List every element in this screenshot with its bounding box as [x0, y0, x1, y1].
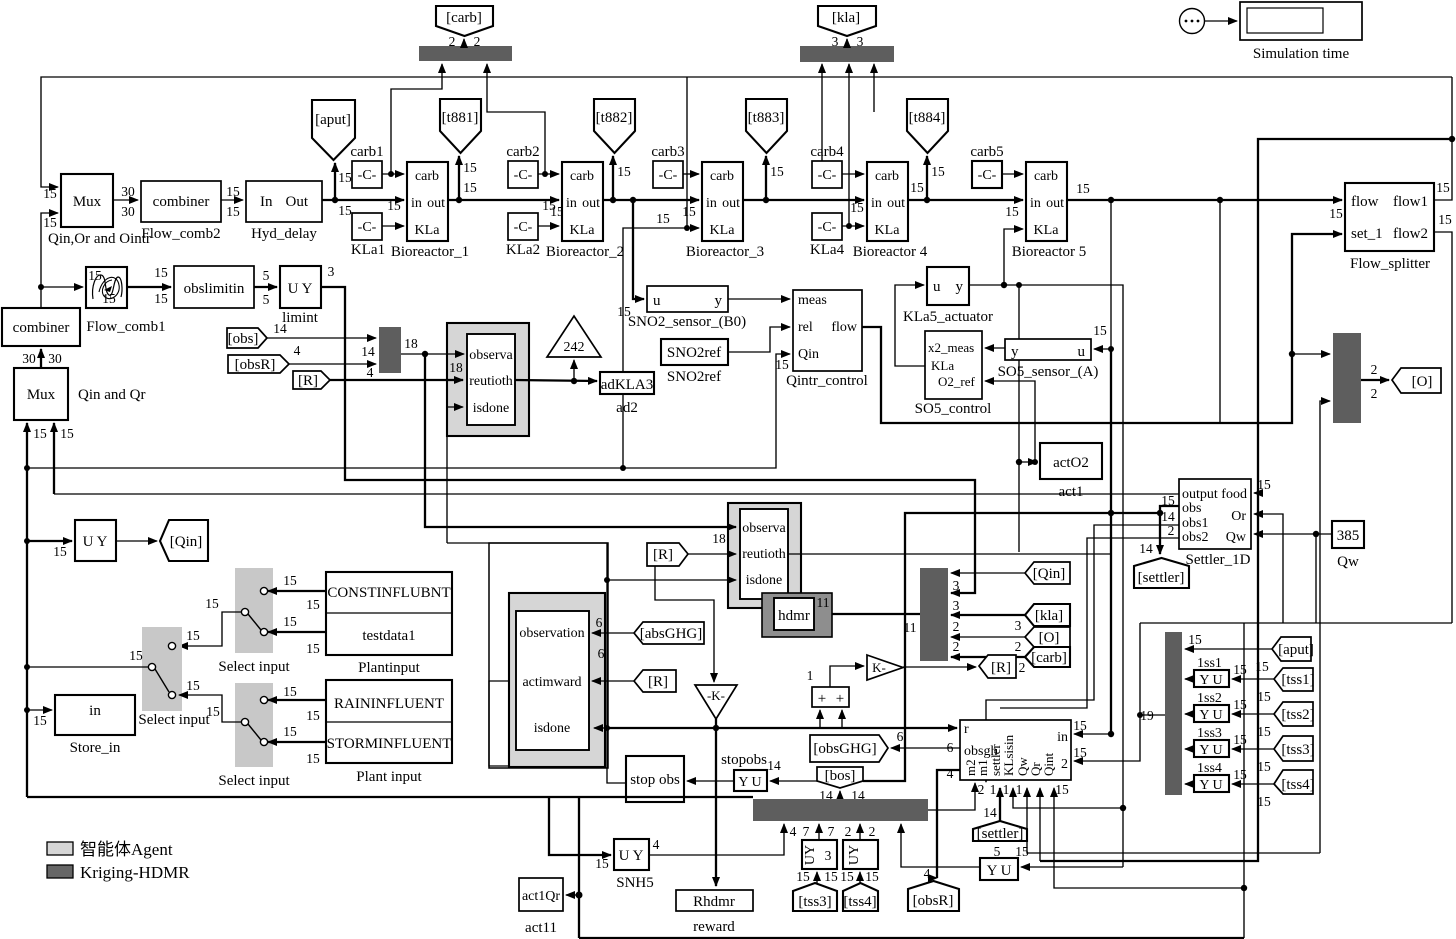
- svg-text:15: 15: [1436, 180, 1450, 195]
- goto tag [Qin] left: [160, 520, 208, 561]
- svg-text:15: 15: [1255, 659, 1269, 674]
- wire Mux to combiner 30: [113, 184, 138, 219]
- block Bioreactor_3: [686, 162, 764, 260]
- block limint U Y: [280, 264, 335, 326]
- svg-text:15: 15: [1073, 718, 1087, 733]
- wire YU right chain: [901, 824, 1123, 867]
- svg-text:u: u: [1078, 344, 1086, 360]
- wire Mux2 to combiner 30: [22, 349, 62, 368]
- svg-text:carb: carb: [415, 169, 439, 184]
- svg-text:Flow_splitter: Flow_splitter: [1350, 256, 1430, 272]
- svg-text:14: 14: [273, 321, 287, 336]
- svg-text:observation: observation: [519, 626, 584, 641]
- constant carb2: [506, 144, 539, 188]
- svg-text:6: 6: [596, 615, 603, 630]
- svg-text:3: 3: [857, 34, 864, 49]
- wire kla to bar2: [951, 614, 1025, 616]
- wire obslimitin to limint: [254, 268, 277, 307]
- svg-text:[carb]: [carb]: [1031, 650, 1067, 666]
- goto tag [carb] top: [436, 6, 493, 36]
- svg-text:[R]: [R]: [298, 373, 318, 389]
- svg-text:obs2: obs2: [1182, 530, 1208, 545]
- wire r 2 feed: [1074, 623, 1165, 761]
- svg-text:6: 6: [897, 729, 904, 744]
- svg-text:[t881]: [t881]: [442, 110, 479, 126]
- mux bar4 tss: [1165, 632, 1182, 795]
- svg-text:30: 30: [48, 351, 62, 366]
- svg-text:flow1: flow1: [1393, 194, 1428, 210]
- block YU tss4: [1185, 761, 1247, 793]
- svg-text:3: 3: [832, 34, 839, 49]
- svg-text:2: 2: [474, 34, 481, 49]
- svg-text:Y U: Y U: [1199, 673, 1222, 688]
- wire O to bar2: [951, 636, 1025, 638]
- from tag [obsR]: [228, 343, 301, 373]
- svg-text:Simulation time: Simulation time: [1253, 46, 1350, 62]
- from tag [O] right: [1015, 627, 1070, 654]
- switch select input A: [218, 568, 290, 675]
- svg-text:Bioreactor_1: Bioreactor_1: [391, 244, 469, 260]
- svg-text:3: 3: [328, 264, 335, 279]
- wire tss3 to YU: [1232, 748, 1274, 750]
- wire bar1 to O tag: [1361, 362, 1389, 401]
- svg-text:15: 15: [154, 291, 168, 306]
- block Simulation time display: [1240, 2, 1362, 62]
- svg-text:flow: flow: [831, 320, 858, 335]
- svg-text:1ss4: 1ss4: [1197, 761, 1222, 776]
- goto tag [bos]: [817, 767, 863, 788]
- svg-text:u: u: [653, 293, 661, 309]
- wire flow2 output down right edge: [1434, 212, 1452, 623]
- block r hdmr model: [960, 720, 1071, 780]
- block Bioreactor_4: [853, 162, 928, 260]
- svg-text:carb4: carb4: [810, 144, 844, 160]
- gain K right: [867, 655, 903, 680]
- constant carb3: [651, 144, 684, 188]
- wire SNH5 feed: [549, 797, 611, 855]
- svg-text:15: 15: [617, 164, 631, 179]
- wire obsgh to obsGHG: [891, 729, 960, 748]
- wire carb4 to Bioreactor_4: [842, 173, 864, 175]
- switch select input C: [218, 683, 290, 789]
- svg-text:UY: UY: [847, 845, 862, 865]
- svg-text:4: 4: [947, 766, 954, 781]
- svg-text:flow2: flow2: [1393, 226, 1428, 242]
- svg-text:Store_in: Store_in: [70, 740, 121, 756]
- wire R to actimward: [592, 680, 634, 682]
- svg-text:[tss3]: [tss3]: [798, 894, 831, 910]
- svg-text:KLa: KLa: [931, 358, 954, 373]
- svg-text:y: y: [1011, 344, 1019, 360]
- wire act1 line down: [1016, 285, 1022, 552]
- block SO5_sensor_(A): [998, 339, 1099, 380]
- svg-text:-C-: -C-: [514, 168, 533, 183]
- svg-text:Qintr_control: Qintr_control: [786, 373, 868, 389]
- svg-text:7: 7: [803, 824, 810, 839]
- svg-text:1: 1: [1016, 782, 1023, 797]
- legend kriging: [47, 863, 190, 882]
- svg-text:15: 15: [910, 180, 924, 195]
- wire KLa4 to Bioreactor_4 and up to kla bar: [842, 64, 864, 229]
- constant KLa1: [351, 213, 385, 258]
- svg-text:4: 4: [367, 365, 374, 380]
- wire KLa1 to Bioreactor_1: [382, 198, 404, 226]
- from tag [tss4] right: [1257, 770, 1314, 809]
- svg-text:[O]: [O]: [1039, 630, 1060, 646]
- svg-text:KLa: KLa: [710, 223, 736, 238]
- svg-text:15: 15: [542, 198, 556, 213]
- svg-text:SNO2ref: SNO2ref: [667, 369, 721, 385]
- wire carb2 to Bioreactor_2 and up to carb bar: [487, 64, 559, 177]
- svg-text:STORMINFLUENT: STORMINFLUENT: [327, 736, 452, 752]
- constant KLa4: [810, 213, 845, 258]
- svg-text:y: y: [956, 279, 964, 295]
- svg-text:30: 30: [22, 351, 36, 366]
- block YU right: [980, 858, 1018, 880]
- wire act1Qr feed: [566, 797, 583, 938]
- mux bar carb: [419, 34, 512, 61]
- svg-text:u: u: [933, 279, 941, 295]
- svg-text:O2_ref: O2_ref: [938, 374, 975, 389]
- wire main line bio1 to bio2: [448, 197, 564, 219]
- wire kla bar extra risers: [822, 64, 874, 161]
- wire top feedback bus: [41, 77, 1452, 187]
- svg-text:output food: output food: [1182, 487, 1247, 502]
- wire switch A out to switch B: [179, 596, 241, 646]
- block actO2: [1040, 443, 1102, 500]
- svg-text:Hyd_delay: Hyd_delay: [251, 226, 317, 242]
- block Plantinput: [326, 572, 452, 676]
- wire KLsisin feed: [1013, 788, 1126, 811]
- svg-text:-C-: -C-: [818, 220, 837, 235]
- svg-text:act1: act1: [1059, 484, 1084, 500]
- wire obsR to bar3: [289, 344, 376, 380]
- svg-text:Qw: Qw: [1337, 554, 1359, 570]
- from tag [R] agent2: [647, 543, 688, 566]
- svg-text:1ss3: 1ss3: [1197, 726, 1222, 741]
- svg-text:Select input: Select input: [218, 659, 290, 675]
- svg-text:3: 3: [1015, 618, 1022, 633]
- block SNH5 UY: [595, 839, 654, 891]
- svg-text:15: 15: [88, 268, 102, 283]
- from tag [obs]: [227, 321, 287, 348]
- svg-text:[kla]: [kla]: [1035, 608, 1063, 624]
- block YU stopobs: [721, 752, 781, 791]
- wire settler obs1 to m1: [986, 525, 1179, 782]
- goto adKLA3 (ad2): [600, 372, 654, 416]
- svg-text:Flow_comb2: Flow_comb2: [141, 226, 220, 242]
- svg-text:out: out: [887, 196, 905, 211]
- svg-text:15: 15: [931, 164, 945, 179]
- mux bar kla: [800, 34, 894, 62]
- from tag [tss3] right: [1257, 736, 1314, 774]
- svg-text:15: 15: [1073, 745, 1087, 760]
- gain K down: [695, 685, 737, 719]
- svg-text:1: 1: [990, 782, 997, 797]
- block Flow_comb1 noise source: [86, 267, 166, 335]
- goto tag [t882]: [594, 99, 635, 153]
- svg-text:15: 15: [1257, 689, 1271, 704]
- mux bar2: [904, 568, 960, 661]
- svg-text:[settler]: [settler]: [1138, 570, 1185, 586]
- svg-text:1ss2: 1ss2: [1197, 691, 1222, 706]
- svg-text:adKLA3: adKLA3: [601, 377, 654, 393]
- svg-text:2: 2: [953, 639, 960, 654]
- svg-text:Select input: Select input: [218, 773, 290, 789]
- svg-text:set_1: set_1: [1351, 226, 1383, 242]
- svg-text:[R]: [R]: [648, 674, 668, 690]
- svg-text:[obsGHG]: [obsGHG]: [813, 741, 876, 757]
- svg-text:242: 242: [564, 340, 585, 355]
- wire sensor y to x2_meas: [985, 347, 1005, 349]
- svg-text:30: 30: [121, 204, 135, 219]
- svg-text:-K-: -K-: [707, 688, 725, 703]
- from tag [aput] right: [1255, 637, 1314, 674]
- wire obsR feed from r block: [924, 770, 960, 881]
- svg-text:15: 15: [338, 203, 352, 218]
- svg-text:15: 15: [850, 200, 864, 215]
- svg-text:carb3: carb3: [651, 144, 684, 160]
- svg-text:2: 2: [1061, 757, 1068, 772]
- svg-text:obs: obs: [1182, 501, 1201, 516]
- svg-text:SNO2_sensor_(B0): SNO2_sensor_(B0): [628, 314, 746, 330]
- svg-text:[aput]: [aput]: [1278, 642, 1314, 658]
- wire bos to YU to stop obs: [687, 780, 817, 782]
- svg-text:out: out: [722, 196, 740, 211]
- svg-text:carb: carb: [875, 169, 899, 184]
- svg-text:15: 15: [306, 751, 320, 766]
- wire main line bio3 to bio4: [743, 180, 924, 203]
- svg-text:observa: observa: [469, 348, 513, 363]
- wire main flow line Hyd_delay to Bioreactor_1: [322, 197, 404, 218]
- svg-text:KLa2: KLa2: [506, 242, 540, 258]
- wire K right to R tag: [903, 666, 976, 668]
- wire combiner output to Mux input 2 and Flow_comb1: [38, 213, 83, 308]
- svg-text:15: 15: [283, 614, 297, 629]
- svg-text:-C-: -C-: [358, 220, 377, 235]
- wire aput riser: [335, 163, 352, 200]
- svg-text:U Y: U Y: [619, 848, 644, 864]
- wire Qin to bar2: [951, 572, 1025, 574]
- svg-text:15: 15: [463, 160, 477, 175]
- svg-text:4: 4: [653, 837, 660, 852]
- svg-text:2: 2: [1019, 660, 1026, 675]
- goto tag [settler] bottom: [973, 805, 1029, 859]
- svg-text:Flow_comb1: Flow_comb1: [86, 319, 165, 335]
- legend agent: [47, 840, 173, 859]
- wire Or feed: [1254, 514, 1283, 623]
- wire main line bio4 to bio5: [908, 197, 1023, 219]
- svg-text:14: 14: [1139, 541, 1153, 556]
- clock: [1180, 9, 1205, 34]
- svg-text:rel: rel: [798, 320, 813, 335]
- svg-text:in: in: [566, 196, 577, 211]
- svg-text:15: 15: [595, 856, 609, 871]
- block Bioreactor_5: [1012, 162, 1087, 260]
- svg-text:2: 2: [1015, 639, 1022, 654]
- svg-text:flow: flow: [1351, 194, 1379, 210]
- svg-text:actO2: actO2: [1053, 455, 1089, 471]
- svg-text:智能体Agent: 智能体Agent: [80, 840, 173, 859]
- svg-text:-C-: -C-: [514, 220, 533, 235]
- wire O2_ref feed: [985, 381, 1038, 465]
- goto tag [O]: [1392, 368, 1441, 393]
- from tag [tss1]: [1257, 668, 1314, 704]
- svg-text:Plantinput: Plantinput: [358, 660, 421, 676]
- svg-text:Qw: Qw: [1226, 530, 1247, 545]
- svg-text:15: 15: [338, 170, 352, 185]
- wire settler tag to r block: [999, 788, 1001, 821]
- svg-text:2: 2: [1371, 362, 1378, 377]
- svg-text:out: out: [427, 196, 445, 211]
- svg-text:5: 5: [263, 292, 270, 307]
- svg-text:isdone: isdone: [534, 721, 571, 736]
- svg-text:[tss4]: [tss4]: [1281, 777, 1314, 793]
- svg-text:15: 15: [226, 184, 240, 199]
- svg-text:Bioreactor 4: Bioreactor 4: [853, 244, 928, 260]
- svg-text:18: 18: [712, 531, 726, 546]
- svg-text:[absGHG]: [absGHG]: [640, 626, 702, 642]
- svg-text:[t883]: [t883]: [748, 110, 785, 126]
- svg-text:act11: act11: [525, 920, 557, 936]
- svg-text:carb1: carb1: [350, 144, 383, 160]
- svg-text:2: 2: [953, 619, 960, 634]
- svg-text:15: 15: [43, 186, 57, 201]
- svg-text:15: 15: [682, 204, 696, 219]
- svg-text:in: in: [706, 196, 717, 211]
- svg-text:[carb]: [carb]: [446, 10, 482, 26]
- from tag [absGHG]: [596, 615, 704, 661]
- wire UY to Qin tag: [116, 540, 157, 542]
- svg-text:15: 15: [796, 869, 810, 884]
- svg-text:Kriging-HDMR: Kriging-HDMR: [80, 863, 190, 882]
- svg-text:in: in: [871, 196, 882, 211]
- svg-text:15: 15: [206, 704, 220, 719]
- svg-text:SNO2ref: SNO2ref: [667, 345, 721, 361]
- svg-text:[Qin]: [Qin]: [170, 534, 203, 550]
- svg-text:isdone: isdone: [473, 401, 510, 416]
- wire settler obs2: [1000, 538, 1179, 708]
- svg-text:2: 2: [978, 782, 985, 797]
- svg-text:[Qin]: [Qin]: [1033, 566, 1066, 582]
- wire SO5_control KLa to actuator: [895, 285, 925, 366]
- wire carb3 to Bioreactor_3: [683, 173, 699, 175]
- svg-text:15: 15: [865, 869, 879, 884]
- block Qintr_control: [786, 290, 868, 389]
- svg-text:observa: observa: [742, 521, 786, 536]
- from tag [carb] right: [1025, 647, 1070, 667]
- wire absGHG to observation: [592, 632, 634, 634]
- wire Qintr flow to set_1 and bar1: [862, 234, 1342, 423]
- block Hyd_delay: [246, 181, 322, 242]
- block YU tss2: [1185, 691, 1247, 723]
- gain 242: [547, 316, 601, 381]
- block 385 Qw: [1332, 521, 1364, 570]
- wire SNO2ref to Qintr rel: [728, 327, 790, 352]
- svg-text:15: 15: [226, 204, 240, 219]
- svg-text:15: 15: [1233, 662, 1247, 677]
- svg-text:15: 15: [1233, 697, 1247, 712]
- svg-text:15: 15: [283, 724, 297, 739]
- svg-text:14: 14: [767, 758, 781, 773]
- constant KLa2: [506, 213, 540, 258]
- wire carb5 to Bioreactor_5: [1002, 173, 1023, 175]
- svg-text:15: 15: [770, 164, 784, 179]
- wire Store_in feed: [27, 710, 52, 728]
- svg-text:obslimitin: obslimitin: [184, 281, 245, 297]
- svg-text:ad2: ad2: [616, 400, 638, 416]
- svg-text:x2_meas: x2_meas: [928, 340, 974, 355]
- block combiner Flow_comb1 left: [2, 308, 80, 346]
- svg-text:-C-: -C-: [659, 168, 678, 183]
- svg-text:SNH5: SNH5: [616, 875, 654, 891]
- hdmr block: [762, 593, 832, 637]
- svg-text:7: 7: [828, 824, 835, 839]
- svg-text:30: 30: [121, 184, 135, 199]
- svg-text:[kla]: [kla]: [832, 10, 860, 26]
- wire tss1 to YU: [1232, 678, 1274, 680]
- svg-text:U Y: U Y: [288, 281, 313, 297]
- block SO5_control: [915, 331, 992, 417]
- svg-text:combiner: combiner: [13, 320, 70, 336]
- svg-text:3: 3: [953, 598, 960, 613]
- svg-text:+: +: [818, 691, 826, 707]
- svg-text:Select input: Select input: [138, 712, 210, 728]
- wire bar up to bos: [819, 788, 865, 803]
- svg-text:Plant input: Plant input: [356, 769, 422, 785]
- from tag [Qin] right: [1025, 562, 1070, 584]
- wire sum to K right: [830, 666, 864, 687]
- svg-text:meas: meas: [798, 293, 827, 308]
- svg-text:SO5_control: SO5_control: [915, 401, 992, 417]
- block Plant input rain storm: [326, 680, 452, 785]
- wire flow1 output loop: [1434, 77, 1455, 200]
- svg-text:385: 385: [1337, 528, 1360, 544]
- constant carb1: [350, 144, 383, 188]
- wire KLa3 feed line: [623, 211, 699, 468]
- svg-text:+: +: [836, 691, 844, 707]
- svg-text:1ss1: 1ss1: [1197, 656, 1222, 671]
- svg-text:Rhdmr: Rhdmr: [693, 894, 735, 910]
- r block port labels: [947, 718, 1087, 797]
- from tag [R] big agent: [634, 670, 676, 692]
- svg-text:[obsR]: [obsR]: [913, 893, 954, 909]
- svg-text:U Y: U Y: [83, 534, 108, 550]
- goto tag [R] k output: [979, 655, 1025, 678]
- block YU tss1: [1185, 656, 1247, 688]
- wire Plantinput rows to switch A: [268, 573, 326, 656]
- svg-text:15: 15: [1093, 323, 1107, 338]
- from tag [tss2]: [1257, 702, 1314, 739]
- block Store_in: [55, 695, 135, 756]
- wire obs to bar3: [267, 337, 376, 339]
- svg-text:15: 15: [656, 211, 670, 226]
- svg-text:carb: carb: [710, 169, 734, 184]
- svg-text:15: 15: [186, 628, 200, 643]
- svg-text:reutioth: reutioth: [469, 374, 513, 389]
- svg-text:5: 5: [263, 268, 270, 283]
- wire 385 to settler Qw: [1254, 531, 1332, 623]
- svg-text:In: In: [260, 194, 273, 210]
- svg-text:SO5_sensor_(A): SO5_sensor_(A): [998, 364, 1099, 380]
- svg-text:15: 15: [306, 597, 320, 612]
- wire carb to bar2: [951, 656, 1025, 658]
- svg-text:Y U: Y U: [1199, 708, 1222, 723]
- svg-text:4: 4: [790, 824, 797, 839]
- svg-text:15: 15: [1233, 767, 1247, 782]
- block UY vertical 1: [802, 824, 837, 869]
- wire r in feed: [1074, 731, 1114, 737]
